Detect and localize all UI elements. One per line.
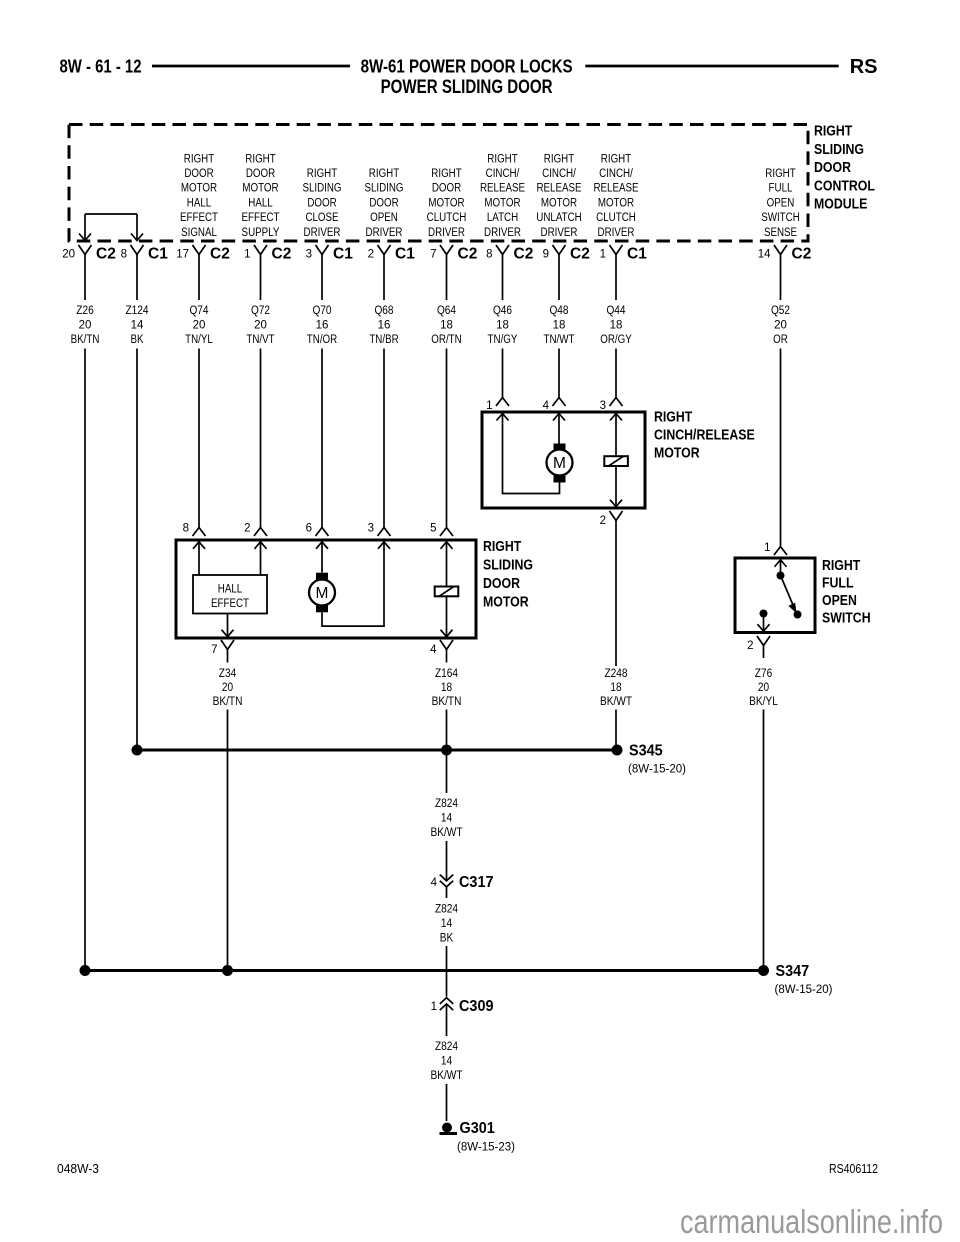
svg-text:8: 8 [486,249,492,261]
svg-text:OPEN: OPEN [370,212,398,224]
svg-text:M: M [316,585,329,602]
svg-text:RELEASE: RELEASE [480,183,525,195]
svg-text:BK/TN: BK/TN [71,334,100,346]
svg-text:4: 4 [430,644,437,656]
svg-text:C1: C1 [395,246,415,263]
svg-text:OPEN: OPEN [822,593,857,609]
svg-text:RIGHT: RIGHT [544,153,574,165]
svg-text:Z824: Z824 [435,1041,459,1053]
svg-text:CLUTCH: CLUTCH [427,212,467,224]
svg-text:MODULE: MODULE [814,197,868,213]
svg-text:C317: C317 [459,874,494,891]
svg-text:C2: C2 [792,246,812,263]
svg-text:DOOR: DOOR [483,576,520,592]
svg-text:SIGNAL: SIGNAL [181,227,217,239]
svg-text:2: 2 [747,640,753,652]
svg-text:RIGHT: RIGHT [184,153,214,165]
svg-text:RELEASE: RELEASE [593,183,638,195]
svg-text:M: M [553,455,566,472]
svg-text:CINCH/: CINCH/ [486,168,520,180]
svg-text:DRIVER: DRIVER [428,227,465,239]
svg-text:BK/WT: BK/WT [600,696,632,708]
svg-text:Q44: Q44 [606,305,626,317]
svg-text:MOTOR: MOTOR [428,197,464,209]
svg-text:CINCH/: CINCH/ [599,168,633,180]
svg-text:2: 2 [244,523,250,535]
svg-text:C2: C2 [210,246,230,263]
svg-text:OR/TN: OR/TN [431,334,461,346]
svg-text:17: 17 [176,249,189,261]
svg-text:RIGHT: RIGHT [369,168,399,180]
svg-text:048W-3: 048W-3 [57,1162,99,1176]
svg-text:14: 14 [441,813,453,825]
svg-text:RELEASE: RELEASE [536,183,581,195]
svg-text:OPEN: OPEN [767,197,795,209]
svg-text:Q48: Q48 [549,305,568,317]
svg-text:2: 2 [368,249,374,261]
svg-text:3: 3 [600,400,606,412]
svg-text:Q74: Q74 [189,305,209,317]
svg-text:1: 1 [244,249,250,261]
svg-text:3: 3 [306,249,312,261]
svg-text:SLIDING: SLIDING [364,183,403,195]
svg-text:C1: C1 [333,246,353,263]
svg-text:BK/TN: BK/TN [432,696,462,708]
svg-text:9: 9 [543,249,549,261]
svg-text:TN/WT: TN/WT [544,334,575,346]
svg-text:Z76: Z76 [755,668,772,680]
svg-text:TN/VT: TN/VT [246,334,274,346]
svg-text:Z248: Z248 [604,668,627,680]
svg-text:20: 20 [254,320,267,332]
svg-text:BK/WT: BK/WT [430,1070,462,1082]
svg-text:18: 18 [610,320,623,332]
svg-text:RIGHT: RIGHT [601,153,631,165]
svg-text:SUPPLY: SUPPLY [242,227,280,239]
svg-text:SLIDING: SLIDING [302,183,341,195]
svg-text:Q46: Q46 [493,305,512,317]
svg-text:SWITCH: SWITCH [761,212,800,224]
svg-text:20: 20 [758,682,769,694]
svg-text:MOTOR: MOTOR [242,183,278,195]
svg-text:EFFECT: EFFECT [180,212,218,224]
svg-text:RS: RS [850,56,878,78]
svg-text:20: 20 [193,320,206,332]
svg-text:DOOR: DOOR [369,197,398,209]
svg-text:CLOSE: CLOSE [305,212,338,224]
svg-text:20: 20 [79,320,92,332]
svg-text:SLIDING: SLIDING [814,142,864,158]
svg-text:14: 14 [441,918,453,930]
svg-text:POWER SLIDING DOOR: POWER SLIDING DOOR [381,77,553,98]
svg-text:MOTOR: MOTOR [654,446,700,462]
svg-text:EFFECT: EFFECT [211,598,249,610]
svg-text:HALL: HALL [218,584,243,596]
svg-text:UNLATCH: UNLATCH [536,212,582,224]
svg-text:MOTOR: MOTOR [483,594,529,610]
svg-text:DRIVER: DRIVER [598,227,635,239]
svg-text:7: 7 [211,644,217,656]
svg-text:DOOR: DOOR [307,197,336,209]
svg-text:DRIVER: DRIVER [484,227,521,239]
svg-text:1: 1 [431,1001,437,1013]
svg-text:C2: C2 [570,246,590,263]
svg-text:RIGHT: RIGHT [654,410,692,426]
svg-text:2: 2 [600,515,606,527]
svg-text:8W-61 POWER DOOR LOCKS: 8W-61 POWER DOOR LOCKS [361,56,573,77]
svg-text:FULL: FULL [769,183,793,195]
svg-text:DRIVER: DRIVER [366,227,403,239]
svg-text:BK: BK [131,334,144,346]
svg-text:1: 1 [600,249,606,261]
svg-text:SLIDING: SLIDING [483,557,533,573]
svg-text:16: 16 [378,320,391,332]
svg-text:DOOR: DOOR [246,168,275,180]
svg-text:RIGHT: RIGHT [814,124,852,140]
svg-text:MOTOR: MOTOR [484,197,520,209]
svg-text:Q70: Q70 [312,305,331,317]
svg-text:4: 4 [543,400,550,412]
svg-text:4: 4 [431,877,438,889]
svg-text:20: 20 [774,320,787,332]
svg-text:RIGHT: RIGHT [483,539,521,555]
svg-text:RIGHT: RIGHT [765,168,795,180]
svg-text:18: 18 [441,682,452,694]
svg-text:TN/BR: TN/BR [369,334,398,346]
svg-text:RIGHT: RIGHT [431,168,461,180]
svg-text:DOOR: DOOR [432,183,461,195]
svg-text:Z824: Z824 [435,798,459,810]
svg-text:C2: C2 [96,246,116,263]
svg-text:6: 6 [306,523,312,535]
svg-text:BK/WT: BK/WT [430,827,462,839]
svg-text:(8W-15-20): (8W-15-20) [775,984,833,996]
svg-text:RS406112: RS406112 [829,1162,878,1176]
svg-text:Z164: Z164 [435,668,459,680]
svg-text:Q52: Q52 [771,305,790,317]
svg-text:OR: OR [773,334,788,346]
svg-text:Q68: Q68 [374,305,393,317]
svg-text:5: 5 [430,523,436,535]
svg-text:RIGHT: RIGHT [307,168,337,180]
svg-text:18: 18 [440,320,453,332]
svg-text:CONTROL: CONTROL [814,178,875,194]
svg-text:DRIVER: DRIVER [541,227,578,239]
svg-text:7: 7 [430,249,436,261]
svg-text:FULL: FULL [822,575,854,591]
svg-text:14: 14 [441,1056,453,1068]
svg-text:SWITCH: SWITCH [822,611,871,627]
svg-text:OR/GY: OR/GY [600,334,632,346]
svg-text:BK: BK [440,933,454,945]
svg-text:C1: C1 [148,246,168,263]
svg-text:TN/YL: TN/YL [185,334,213,346]
svg-text:RIGHT: RIGHT [487,153,517,165]
svg-text:G301: G301 [460,1120,495,1137]
svg-text:(8W-15-23): (8W-15-23) [457,1142,515,1154]
svg-text:MOTOR: MOTOR [541,197,577,209]
svg-text:RIGHT: RIGHT [822,558,860,574]
svg-text:LATCH: LATCH [487,212,518,224]
svg-text:CLUTCH: CLUTCH [596,212,636,224]
svg-text:8: 8 [183,523,189,535]
svg-text:C1: C1 [627,246,647,263]
svg-text:(8W-15-20): (8W-15-20) [628,764,686,776]
svg-text:BK/YL: BK/YL [749,696,778,708]
svg-text:C2: C2 [514,246,534,263]
svg-text:14: 14 [758,249,771,261]
svg-text:TN/GY: TN/GY [488,334,518,346]
svg-text:8: 8 [121,249,127,261]
svg-text:EFFECT: EFFECT [242,212,280,224]
svg-text:Z824: Z824 [435,904,459,916]
svg-text:HALL: HALL [248,197,273,209]
svg-text:C309: C309 [459,998,494,1015]
svg-text:1: 1 [764,542,770,554]
svg-text:DRIVER: DRIVER [304,227,341,239]
svg-text:RIGHT: RIGHT [245,153,275,165]
svg-text:20: 20 [222,682,233,694]
svg-text:16: 16 [316,320,329,332]
svg-text:20: 20 [62,249,75,261]
svg-text:SENSE: SENSE [764,227,797,239]
svg-text:3: 3 [368,523,374,535]
svg-text:1: 1 [486,400,492,412]
svg-text:CINCH/: CINCH/ [542,168,576,180]
svg-text:Z26: Z26 [76,305,93,317]
svg-text:MOTOR: MOTOR [598,197,634,209]
svg-text:BK/TN: BK/TN [213,696,243,708]
svg-text:S345: S345 [629,743,663,760]
svg-text:C2: C2 [458,246,478,263]
svg-text:14: 14 [131,320,144,332]
svg-text:C2: C2 [272,246,292,263]
svg-text:18: 18 [496,320,509,332]
svg-text:8W - 61 - 12: 8W - 61 - 12 [60,56,142,77]
svg-text:DOOR: DOOR [184,168,213,180]
svg-text:TN/OR: TN/OR [307,334,337,346]
svg-text:18: 18 [610,682,621,694]
svg-text:S347: S347 [776,963,810,980]
svg-text:Z34: Z34 [219,668,237,680]
svg-text:Q72: Q72 [251,305,270,317]
svg-text:CINCH/RELEASE: CINCH/RELEASE [654,428,755,444]
svg-text:MOTOR: MOTOR [181,183,217,195]
svg-text:Q64: Q64 [437,305,457,317]
svg-text:HALL: HALL [187,197,212,209]
svg-text:18: 18 [553,320,566,332]
svg-text:DOOR: DOOR [814,160,851,176]
svg-text:carmanualsonline.info: carmanualsonline.info [680,1203,943,1240]
svg-text:Z124: Z124 [125,305,149,317]
